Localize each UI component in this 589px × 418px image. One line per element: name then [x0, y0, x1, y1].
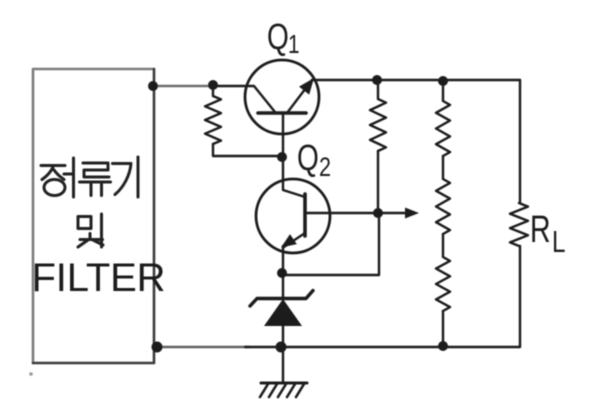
node: Q2 emitter / zener junction: [277, 268, 287, 278]
svg-text:R: R: [530, 209, 551, 251]
wiper arrowhead: [405, 208, 419, 219]
node: R3 top junction: [438, 76, 448, 86]
label RL: [530, 209, 565, 259]
wire: bottom rail: [245, 346, 520, 347]
node: zener anode / bottom rail: [276, 342, 287, 353]
box label 및: [78, 214, 103, 247]
svg-text:2: 2: [319, 153, 331, 183]
wire: right rail down to RL: [519, 80, 521, 203]
node: R2 top junction: [372, 75, 382, 85]
svg-text:1: 1: [288, 30, 300, 59]
wire: top rail Q1 emitter to right: [312, 79, 520, 81]
box label 정류기: [41, 157, 138, 197]
label Q2: [297, 138, 331, 183]
svg-text:FILTER: FILTER: [32, 256, 166, 300]
transistor Q2: [256, 179, 330, 273]
zener diode D1: [250, 274, 313, 347]
rectifier/filter box: [33, 69, 154, 363]
wire: RL bottom to bottom rail: [519, 246, 521, 346]
wire: Q2 base lead to pot wiper arrow: [305, 212, 407, 214]
node: R1 top junction: [208, 80, 218, 90]
resistor R1: [205, 86, 221, 144]
node: base line / R2 junction: [373, 208, 383, 218]
resistor chain R3 (potentiometer): [436, 81, 450, 346]
node: box output top: [148, 81, 158, 91]
speck artifact lower-left: [29, 372, 33, 376]
node: box bottom junction: [152, 342, 163, 353]
wire: top rail from box to R1: [154, 85, 213, 87]
svg-text:Q: Q: [297, 138, 319, 178]
node: Q1 base / R1 junction: [277, 152, 287, 162]
wire: emitter node to R2 branch (down and right): [283, 214, 379, 275]
svg-text:Q: Q: [267, 17, 289, 57]
wire: ground stem: [282, 347, 284, 383]
label Q1: [267, 17, 300, 59]
ground: [260, 383, 307, 397]
resistor RL: [510, 203, 528, 246]
transistor Q1: [245, 60, 319, 179]
wire: top rail from R1 to Q1 collector: [212, 86, 275, 112]
node: R3 bottom junction: [438, 341, 448, 351]
svg-text:L: L: [552, 224, 565, 259]
resistor R2: [370, 80, 386, 151]
wire: bottom rail left (faded): [157, 346, 250, 348]
wire: R1 bottom to Q1 base node: [213, 144, 282, 156]
wire: R2 bottom to base-line junction: [377, 151, 379, 213]
